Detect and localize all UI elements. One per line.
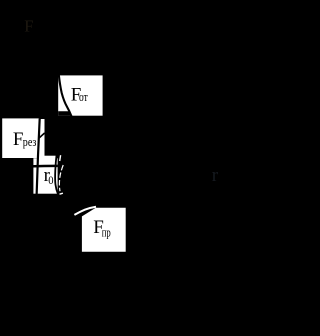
svg-text:рез: рез <box>23 135 37 149</box>
svg-text:от: от <box>79 90 88 104</box>
svg-text:r: r <box>212 165 219 186</box>
svg-text:пр: пр <box>102 225 111 239</box>
svg-text:0: 0 <box>48 173 53 187</box>
svg-text:F: F <box>24 16 33 35</box>
